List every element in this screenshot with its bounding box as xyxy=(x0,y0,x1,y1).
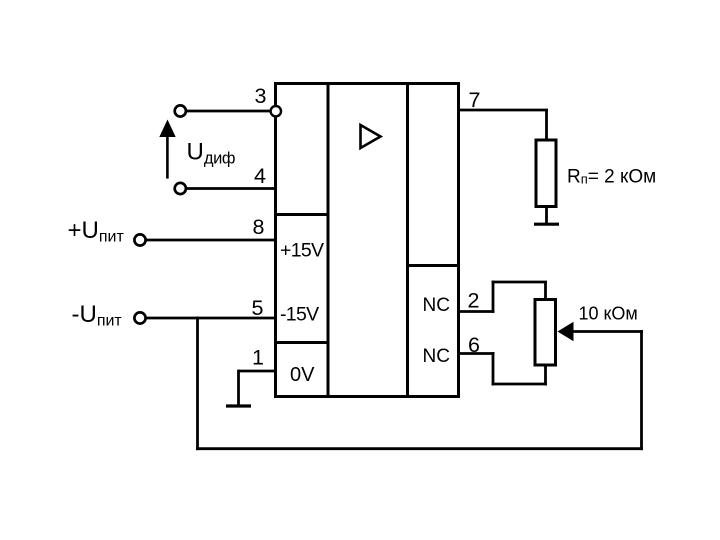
svg-text:Uдиф: Uдиф xyxy=(187,139,236,168)
wire: pin 2 jog vertical xyxy=(492,281,495,313)
terminal: differential input bottom xyxy=(175,183,186,194)
IC inner divider line (left column) xyxy=(327,82,330,398)
ground symbol (pin 1) xyxy=(226,404,251,407)
wire: potentiometer top rail xyxy=(492,281,547,284)
node: pin 3 junction circle xyxy=(271,106,281,116)
arrow: U_диф direction line xyxy=(166,134,169,179)
wire: resistor top lead xyxy=(545,110,548,141)
wire: wiper right vertical xyxy=(640,330,643,450)
svg-text:+15V: +15V xyxy=(280,240,324,262)
svg-text:-15V: -15V xyxy=(280,303,319,325)
op-amp triangle symbol xyxy=(361,125,381,148)
terminal: -Uпит xyxy=(134,312,145,323)
svg-text:+Uпит: +Uпит xyxy=(68,217,125,246)
ground symbol (resistor) xyxy=(534,223,559,226)
svg-text:6: 6 xyxy=(468,333,480,357)
wire: potentiometer bottom lead xyxy=(544,365,547,385)
wire: pin 3 input xyxy=(181,110,276,113)
svg-text:NC: NC xyxy=(423,346,450,367)
wire: pin 2 horizontal xyxy=(459,310,495,313)
svg-text:Rп= 2 кОм: Rп= 2 кОм xyxy=(567,167,656,188)
svg-text:7: 7 xyxy=(469,88,481,112)
svg-text:2: 2 xyxy=(468,289,480,313)
svg-text:1: 1 xyxy=(252,346,264,370)
wire: pin 6 horizontal xyxy=(459,352,495,355)
svg-text:3: 3 xyxy=(255,84,267,108)
IC inner divider line (right column) xyxy=(406,82,409,398)
wire: potentiometer top lead xyxy=(544,282,547,300)
wire: pin 6 jog vertical xyxy=(492,352,495,385)
svg-text:5: 5 xyxy=(252,296,264,320)
IC divider: top of +15V box xyxy=(274,213,330,216)
svg-text:-Uпит: -Uпит xyxy=(72,301,123,330)
svg-text:10 кОм: 10 кОм xyxy=(579,304,638,324)
IC divider: top of NC box xyxy=(406,264,460,267)
svg-text:NC: NC xyxy=(423,295,450,316)
arrow: U_диф arrowhead xyxy=(159,120,175,138)
svg-text:8: 8 xyxy=(253,215,265,239)
wire: resistor bottom lead xyxy=(545,207,548,224)
wire: pin 5 (-Uпит) xyxy=(140,317,276,320)
svg-text:4: 4 xyxy=(254,164,266,188)
wire: wiper horizontal xyxy=(572,330,643,333)
wire: pin 7 output xyxy=(459,109,549,112)
resistor R_n body xyxy=(536,140,556,207)
wire: pin 1 vertical drop to ground xyxy=(237,370,240,405)
potentiometer wiper arrowhead xyxy=(558,322,574,341)
svg-text:0V: 0V xyxy=(290,364,315,386)
potentiometer body 10 кОм xyxy=(535,300,556,366)
wire: pin 8 (+Uпит) xyxy=(140,239,276,242)
terminal: +Uпит xyxy=(134,234,145,245)
IC divider: top of 0V box xyxy=(274,341,330,344)
wire: potentiometer bottom rail xyxy=(492,383,547,386)
op-amp IC body xyxy=(276,84,459,397)
wire: pin 1 horizontal xyxy=(239,370,277,373)
terminal: differential input top xyxy=(175,105,186,116)
wire: left vertical from -Uпит line xyxy=(196,317,199,451)
wire: bottom feedback rail xyxy=(196,447,643,450)
wire: pin 4 input xyxy=(181,187,276,190)
